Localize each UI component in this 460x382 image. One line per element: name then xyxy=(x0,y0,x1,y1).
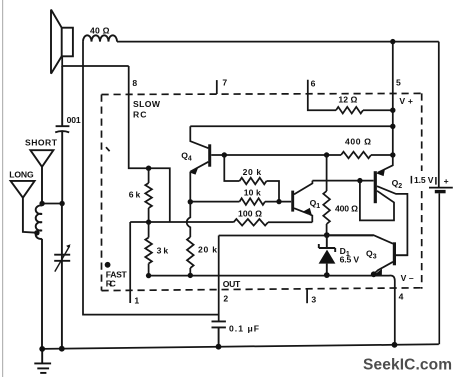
svg-text:1: 1 xyxy=(134,295,139,305)
resistor 3k xyxy=(148,222,150,237)
capacitor C3 0.1uF xyxy=(212,321,226,346)
node Q3 emitter xyxy=(371,271,377,277)
wire battery positive lead xyxy=(438,42,440,188)
wire V+ vertical pin 5 xyxy=(392,42,394,155)
node 20k bottom xyxy=(188,273,193,278)
wire OUT row pin 2 xyxy=(219,235,374,237)
variable capacitor C2 xyxy=(54,204,70,349)
resistor 400 ohm horizontal xyxy=(341,152,371,159)
node D1 top junction xyxy=(324,232,330,238)
svg-text:1.5 V: 1.5 V xyxy=(414,175,434,185)
wire pin 2 vertical xyxy=(218,236,220,322)
svg-text:001: 001 xyxy=(67,115,81,125)
node top rail junction xyxy=(390,39,395,44)
node D1 bottom xyxy=(324,272,330,278)
node cap 001 bottom xyxy=(59,201,64,206)
pin 7 tick xyxy=(216,80,218,94)
svg-text:6: 6 xyxy=(311,79,316,89)
node 3k bottom xyxy=(146,273,151,278)
resistor 20k horizontal xyxy=(224,155,239,181)
svg-text:8: 8 xyxy=(132,78,137,88)
node antenna short xyxy=(39,201,44,206)
wire speaker terminal to pin8 corner xyxy=(62,56,129,66)
transistor Q4 xyxy=(190,126,210,202)
IC dashed box outline xyxy=(102,93,422,290)
svg-text:6 k: 6 k xyxy=(129,190,141,200)
node 6k top xyxy=(146,166,151,171)
node Q4 base junction xyxy=(222,152,227,157)
resistor 6k xyxy=(148,168,150,183)
wire pin8 SLOW RC line xyxy=(129,66,170,222)
inductor L1 40 ohm coil xyxy=(83,35,117,41)
svg-text:40 Ω: 40 Ω xyxy=(90,26,110,36)
svg-text:2: 2 xyxy=(223,294,228,304)
antenna LONG xyxy=(11,181,36,233)
speaker LS1 xyxy=(51,10,73,74)
antenna SHORT xyxy=(30,150,53,203)
svg-text:400 Ω: 400 Ω xyxy=(345,136,371,146)
svg-text:3 k: 3 k xyxy=(157,245,169,255)
wire top supply rail xyxy=(117,41,439,43)
pin 3 tick xyxy=(306,289,308,303)
svg-text:4: 4 xyxy=(399,292,404,302)
svg-text:OUT: OUT xyxy=(223,279,241,289)
svg-text:RC: RC xyxy=(133,110,147,120)
label 1.5V xyxy=(411,176,436,185)
wire antenna node xyxy=(42,203,62,205)
transistor Q2 xyxy=(360,155,408,255)
svg-text:7: 7 xyxy=(222,78,227,88)
node varcap bottom xyxy=(59,346,65,352)
transistor Q3 xyxy=(327,235,408,276)
node Q4 emitter 10k junction xyxy=(188,199,193,204)
wire internal V+ rail xyxy=(190,125,392,127)
resistor 100 ohm row xyxy=(130,221,233,223)
resistor 400 ohm vertical xyxy=(326,155,328,191)
svg-text:400 Ω: 400 Ω xyxy=(335,203,358,213)
wire Q4 base row xyxy=(211,154,341,156)
battery B1 1.5V xyxy=(429,188,453,345)
tick mark inside box left xyxy=(106,147,110,151)
svg-text:0.1 μF: 0.1 μF xyxy=(229,323,259,333)
transformer T1 winding xyxy=(36,204,42,349)
node ground left xyxy=(39,346,45,352)
resistor 20k vertical xyxy=(187,202,191,237)
svg-text:+: + xyxy=(444,176,449,186)
node 400h left xyxy=(324,152,329,157)
svg-text:20 k: 20 k xyxy=(198,245,217,255)
scan edge line xyxy=(2,0,4,377)
svg-text:5: 5 xyxy=(396,77,401,87)
capacitor C1 001 xyxy=(55,66,69,204)
svg-text:RC: RC xyxy=(106,278,116,288)
node C3 bottom xyxy=(216,344,222,350)
node 400h right Q2 emitter xyxy=(390,152,395,157)
pin 6 tick and wire to 12 ohm xyxy=(308,80,336,110)
ground symbol xyxy=(34,349,51,373)
FAST RC terminal dot xyxy=(105,262,111,268)
svg-text:SLOW: SLOW xyxy=(133,99,161,109)
wire coil left lead down left rail xyxy=(83,42,219,315)
zener diode D1 xyxy=(319,235,336,275)
svg-text:12 Ω: 12 Ω xyxy=(338,95,357,105)
node internal rail junction xyxy=(390,124,395,129)
svg-text:10 k: 10 k xyxy=(244,187,261,197)
svg-text:20 k: 20 k xyxy=(243,167,262,177)
wire bottom ground rail xyxy=(42,344,439,349)
svg-text:SeekIC.com: SeekIC.com xyxy=(363,356,452,373)
svg-text:100 Ω: 100 Ω xyxy=(238,209,262,219)
node 6k bottom 3k top xyxy=(146,219,151,224)
wire V- row xyxy=(149,275,395,344)
node LONG tap on winding xyxy=(34,230,39,235)
resistor 10k xyxy=(190,201,239,203)
node 12 ohm junction xyxy=(390,108,395,113)
resistor 12 ohm xyxy=(336,107,363,114)
transistor Q1 xyxy=(293,181,313,223)
svg-text:LONG: LONG xyxy=(9,170,34,180)
node Q1 base junction xyxy=(276,199,281,204)
wire Q1 collector to Q2 base xyxy=(312,180,373,182)
svg-text:6.5 V: 6.5 V xyxy=(340,254,360,264)
svg-text:3: 3 xyxy=(311,294,316,304)
svg-text:SHORT: SHORT xyxy=(25,138,58,148)
node pin4 bottom xyxy=(392,342,398,348)
pin 1 line xyxy=(129,222,131,303)
node Q2 base junction xyxy=(357,178,362,183)
